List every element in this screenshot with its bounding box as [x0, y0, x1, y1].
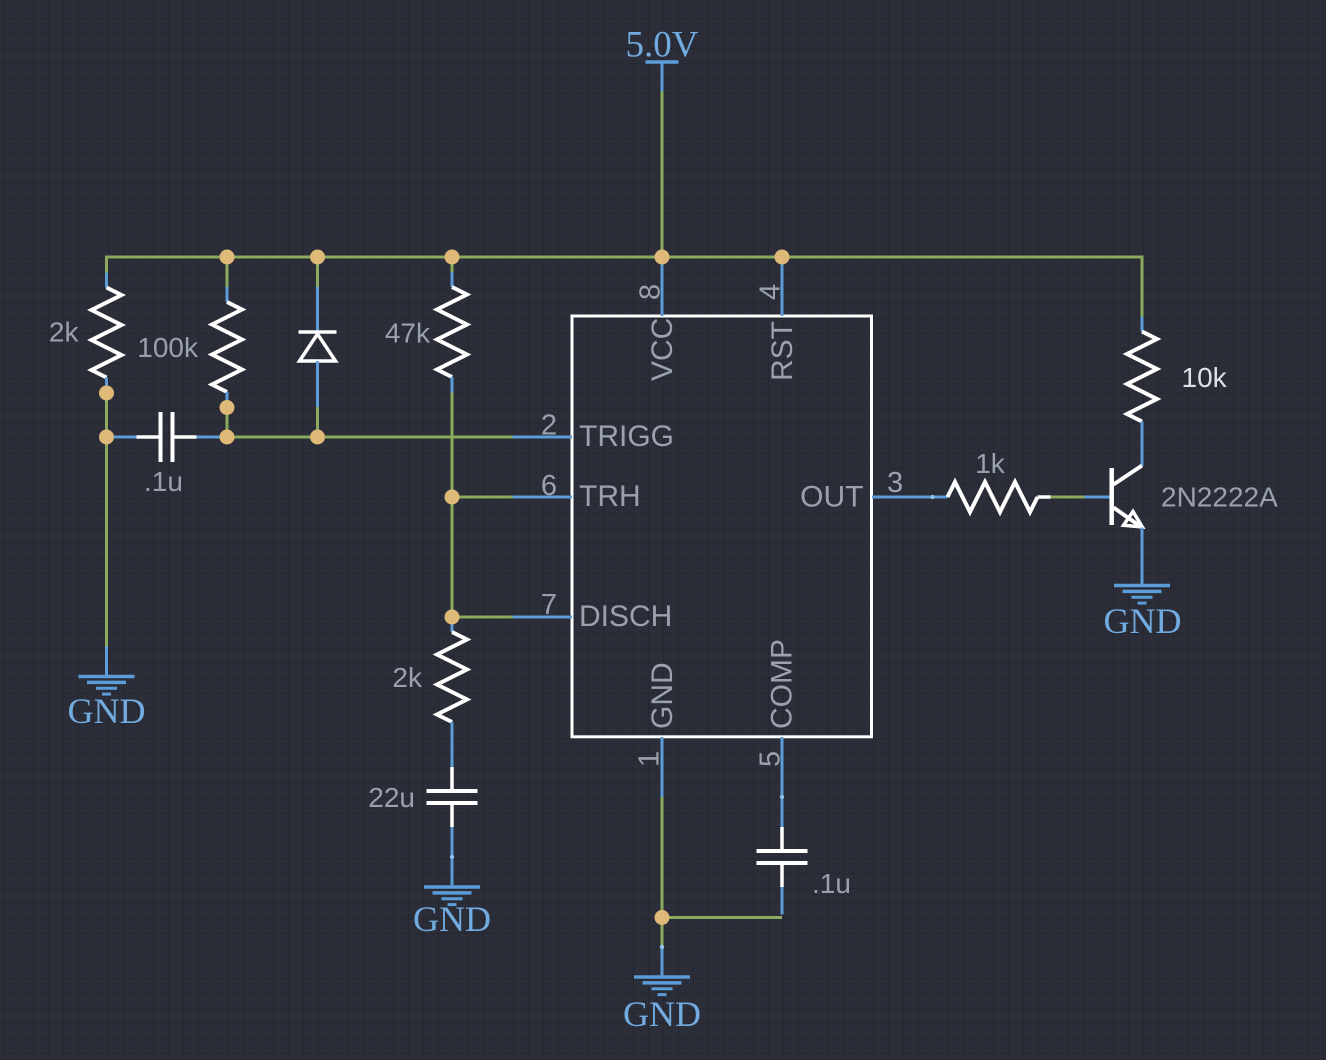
- wire: diode bottom stub: [316, 407, 319, 437]
- resistor R4 2k (middle): [437, 617, 467, 737]
- svg-text:.1u: .1u: [812, 868, 851, 899]
- node dot GND net: [655, 910, 670, 925]
- diode D1: [299, 287, 337, 407]
- wire: pin1 GND net vertical: [661, 797, 664, 947]
- wire: power to bus: [661, 92, 664, 258]
- wire: 47k top stub: [451, 257, 454, 273]
- pin 5 lead: [781, 737, 784, 797]
- svg-text:2k: 2k: [49, 317, 80, 348]
- terminal tick gnd3 lead: [660, 945, 664, 949]
- svg-text:6: 6: [541, 470, 557, 502]
- node dot bus/diode: [310, 250, 325, 265]
- svg-text:RST: RST: [766, 321, 799, 381]
- svg-text:GND: GND: [68, 691, 146, 731]
- node dot bus/VCC: [655, 250, 670, 265]
- wire: node A vertical (2k bottom to GND): [105, 393, 108, 647]
- pin 3 lead: [872, 496, 933, 499]
- svg-text:1k: 1k: [975, 448, 1006, 479]
- wire: DISCH stub: [452, 616, 513, 619]
- capacitor C1 .1u (horizontal): [107, 412, 227, 462]
- wire: TRH stub: [452, 496, 513, 499]
- svg-text:5.0V: 5.0V: [626, 25, 699, 66]
- node dot cap right: [220, 430, 235, 445]
- capacitor C3 .1u (COMP): [757, 797, 808, 915]
- svg-text:TRIGG: TRIGG: [579, 420, 674, 453]
- pin 7 lead: [513, 616, 573, 619]
- node dot bus/RST: [775, 250, 790, 265]
- wire: 100k top stub: [226, 257, 229, 288]
- svg-text:47k: 47k: [385, 318, 431, 349]
- wire: GND net horizontal to COMP cap: [662, 916, 782, 919]
- svg-text:5: 5: [755, 751, 787, 767]
- node dot bus/47k: [445, 250, 460, 265]
- svg-text:GND: GND: [413, 899, 491, 939]
- transistor Q1 2N2222A: [1085, 437, 1143, 556]
- terminal tick cap C3 top: [780, 795, 784, 799]
- svg-text:GND: GND: [646, 662, 679, 729]
- resistor R2 100k: [212, 287, 242, 408]
- IC U1 box: [572, 316, 872, 737]
- svg-text:2k: 2k: [392, 662, 423, 693]
- terminal tick 22u bottom: [450, 855, 454, 859]
- pin 8 lead: [661, 257, 664, 316]
- resistor R3 47k: [437, 272, 467, 393]
- node dot 2k bottom: [99, 386, 114, 401]
- svg-text:3: 3: [887, 467, 903, 499]
- svg-text:COMP: COMP: [766, 639, 799, 729]
- svg-text:.1u: .1u: [144, 466, 183, 497]
- svg-text:VCC: VCC: [646, 318, 679, 381]
- node dot bus/100k: [220, 250, 235, 265]
- ground GND1 (left): [79, 647, 135, 695]
- terminal tick pin3 end: [930, 495, 934, 499]
- node dot TRH: [445, 490, 460, 505]
- node dot cap left: [99, 430, 114, 445]
- node dot 100k bottom: [220, 400, 235, 415]
- svg-text:7: 7: [541, 589, 557, 621]
- svg-text:22u: 22u: [368, 782, 415, 813]
- svg-text:OUT: OUT: [800, 481, 863, 514]
- svg-text:100k: 100k: [137, 332, 199, 363]
- svg-text:8: 8: [635, 284, 667, 300]
- wire: TRIGG net horizontal: [227, 436, 513, 439]
- svg-text:4: 4: [755, 284, 787, 300]
- pin 4 lead: [781, 257, 784, 316]
- svg-text:2N2222A: 2N2222A: [1161, 482, 1278, 513]
- ground GND4 (emitter): [1114, 556, 1170, 604]
- ground GND2 (22u): [424, 857, 480, 905]
- pin 6 lead: [513, 496, 573, 499]
- wire: OUT to transistor base: [1051, 496, 1085, 499]
- ground GND3 (middle): [634, 947, 690, 995]
- pin 1 lead: [661, 737, 664, 797]
- wire: top bus: [107, 257, 1143, 317]
- svg-text:2: 2: [541, 410, 557, 442]
- node dot DISCH: [445, 610, 460, 625]
- svg-text:10k: 10k: [1182, 362, 1228, 393]
- capacitor C2 22u: [427, 737, 478, 857]
- wire: 100k bottom stub: [226, 408, 229, 438]
- power flag V1 5.0V: [626, 25, 699, 92]
- svg-text:DISCH: DISCH: [579, 600, 672, 633]
- wire: diode top stub: [316, 257, 319, 288]
- resistor R1 2k (left): [92, 273, 122, 394]
- svg-text:TRH: TRH: [579, 480, 641, 513]
- resistor R5 1k (horizontal): [933, 482, 1051, 512]
- pin 2 lead: [513, 436, 573, 439]
- svg-text:GND: GND: [1104, 601, 1182, 641]
- svg-text:1: 1: [634, 751, 666, 767]
- wire: 47k bottom to TRH/DISCH: [451, 393, 454, 618]
- resistor R6 10k: [1127, 317, 1157, 437]
- svg-text:GND: GND: [623, 994, 701, 1034]
- node dot diode/TRIGG: [310, 430, 325, 445]
